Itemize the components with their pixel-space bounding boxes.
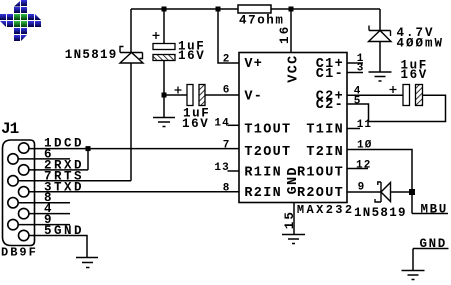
junction MBU: [409, 189, 415, 195]
wire RTS: [18, 180, 131, 182]
svg-text:R1OUT: R1OUT: [297, 165, 344, 180]
wire pin15 GND: [293, 203, 295, 235]
pin circle 9: [8, 219, 18, 229]
wire pin4 stub: [29, 213, 70, 215]
junction on rail at VCC: [289, 7, 294, 12]
svg-text:T1IN: T1IN: [306, 123, 344, 138]
svg-text:12: 12: [356, 159, 371, 171]
svg-text:13: 13: [214, 162, 229, 174]
diode D1 1N5819: [120, 47, 143, 64]
diode D2 1N5819: [375, 182, 391, 202]
pin circle 7: [8, 176, 18, 186]
svg-text:14: 14: [214, 118, 229, 130]
logo: [0, 0, 41, 41]
svg-text:TXD: TXD: [54, 180, 84, 194]
svg-text:J1: J1: [1, 120, 19, 138]
wire pin8 stub: [18, 202, 70, 204]
wire left vertical to diode D1: [130, 9, 132, 53]
wire RXD: [29, 169, 88, 171]
wire pin3 stub C1-: [347, 72, 363, 74]
svg-text:8: 8: [223, 183, 231, 195]
svg-text:1N5819: 1N5819: [65, 48, 118, 62]
wire D1 anode down to RTS: [130, 63, 132, 181]
svg-text:GND: GND: [420, 237, 447, 251]
wire pin1 stub C1+: [347, 62, 363, 64]
wire TXD to R2IN: [29, 191, 239, 193]
capacitor C2 1uF 16V: [175, 85, 206, 106]
wire DCD-RXD vertical: [87, 149, 89, 170]
svg-text:16V: 16V: [401, 68, 428, 82]
svg-text:T2OUT: T2OUT: [244, 145, 291, 160]
svg-text:T1OUT: T1OUT: [244, 123, 291, 138]
wire pin9 stub: [18, 224, 70, 226]
junction DCD: [86, 146, 91, 151]
junction on rail at V+: [216, 7, 221, 12]
net MBU underline: [412, 213, 448, 215]
svg-text:R2OUT: R2OUT: [297, 186, 344, 201]
svg-text:C2-: C2-: [316, 98, 344, 113]
ground at C1: [153, 118, 175, 127]
wire D2 to MBU junction: [391, 191, 413, 193]
pin circle 4: [19, 208, 29, 218]
svg-text:GND: GND: [54, 224, 84, 238]
pin circle 6: [8, 154, 18, 164]
svg-text:5: 5: [44, 224, 53, 238]
wire pin11 stub: [347, 128, 360, 130]
ground at pin15: [282, 235, 305, 244]
pin circle 2: [19, 165, 29, 175]
svg-text:16V: 16V: [182, 117, 209, 131]
wire C2 to V-: [205, 94, 239, 96]
pin circle 8: [8, 198, 18, 208]
ground at DB9 pin5: [76, 258, 98, 268]
svg-text:V-: V-: [244, 89, 263, 104]
wire pin14 stub: [228, 124, 240, 126]
svg-text:15: 15: [283, 210, 297, 229]
wire top rail: [131, 8, 380, 10]
pin circle 3: [19, 187, 29, 197]
pin circle 5: [19, 230, 29, 240]
wire junction to C2: [164, 94, 187, 96]
svg-text:V+: V+: [244, 57, 263, 72]
junction on rail at C1: [162, 7, 167, 12]
svg-text:DCD: DCD: [54, 137, 84, 151]
wire DCD to T2OUT: [29, 148, 239, 150]
ground at GND net: [402, 271, 425, 280]
wire pin12 stub: [347, 168, 368, 170]
capacitor C4 1uF 16V: [390, 85, 423, 106]
svg-text:1Ø: 1Ø: [357, 139, 372, 151]
svg-text:DB9F: DB9F: [1, 246, 38, 260]
wire DB9 GND: [29, 236, 87, 258]
svg-text:MAX232: MAX232: [297, 203, 355, 217]
svg-text:11: 11: [357, 119, 372, 131]
wire C1 top: [163, 9, 165, 44]
svg-text:R2IN: R2IN: [244, 186, 282, 201]
svg-text:4ØØmW: 4ØØmW: [397, 37, 445, 51]
wire VCC pin16: [290, 9, 292, 53]
zener diode D3 4.7V: [369, 26, 392, 42]
svg-text:6: 6: [223, 84, 231, 96]
wire pin13 stub: [228, 170, 240, 172]
wire pin6 stub: [18, 158, 70, 160]
wire C1 bottom to junction: [163, 61, 165, 118]
wire pin4 C2+ to C4: [347, 94, 403, 96]
pin circle 1: [19, 143, 29, 153]
capacitor C1 1uF 16V: [153, 32, 176, 61]
svg-text:3: 3: [357, 63, 365, 75]
wire pin9 R2OUT to D2: [347, 191, 381, 193]
svg-text:16: 16: [278, 25, 292, 44]
svg-text:16V: 16V: [178, 49, 205, 63]
wire zener to ground: [379, 42, 381, 73]
connector J1 DB9F body: [3, 140, 35, 246]
wire pin10 T2IN to MBU: [347, 150, 412, 214]
ground at zener: [369, 72, 392, 81]
svg-text:GND: GND: [286, 166, 301, 194]
junction at C1-C2-ground node: [162, 93, 167, 98]
svg-text:5: 5: [354, 96, 362, 108]
svg-text:9: 9: [358, 182, 366, 194]
svg-text:T2IN: T2IN: [306, 145, 344, 160]
svg-text:1N5819: 1N5819: [354, 206, 407, 220]
svg-text:2: 2: [223, 53, 231, 65]
wire C4 right loop: [347, 95, 446, 121]
wire zener top: [379, 9, 381, 31]
wire V+ branch: [218, 9, 239, 63]
svg-text:7: 7: [223, 140, 231, 152]
svg-text:MBU: MBU: [421, 203, 448, 217]
svg-text:VCC: VCC: [287, 54, 302, 82]
resistor R1 47ohm: [238, 5, 271, 13]
svg-text:R1IN: R1IN: [244, 165, 282, 180]
net GND wire: [413, 249, 449, 271]
svg-text:C1-: C1-: [316, 67, 344, 82]
op-amp U1 MAX232 box: [239, 53, 347, 203]
